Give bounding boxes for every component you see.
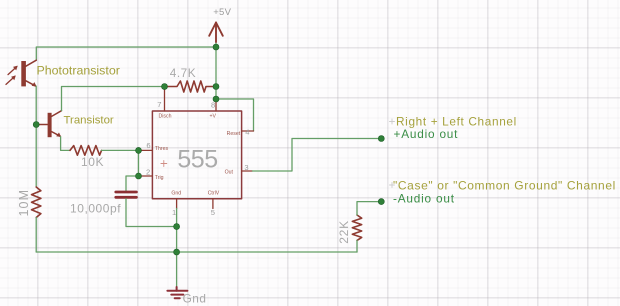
wire transistor emitter down to 10K	[61, 137, 70, 151]
transistor Q base bar	[48, 113, 52, 137]
svg-text:10M: 10M	[17, 189, 31, 217]
capacitor C 10,000pf plates	[116, 192, 137, 197]
svg-text:Gnd: Gnd	[171, 191, 181, 197]
svg-text:Transistor: Transistor	[64, 115, 114, 127]
junction cap-gnd	[174, 224, 180, 230]
pin 6 stub	[139, 149, 153, 151]
origin cross case channel label	[390, 183, 395, 188]
svg-text:+Audio out: +Audio out	[394, 127, 459, 141]
ground symbol	[167, 287, 187, 298]
wire transistor collector up and right to R 4.7K node	[62, 87, 165, 111]
op IC U1 555 body	[152, 111, 241, 199]
wire 10M to bottom rail	[35, 218, 37, 253]
junction bottom rail gnd	[174, 249, 180, 255]
wire thres-trig link	[138, 150, 140, 176]
svg-text:6: 6	[146, 141, 150, 150]
svg-text:Thres: Thres	[155, 146, 169, 152]
junction trig	[136, 173, 142, 179]
svg-text:4: 4	[245, 127, 249, 136]
node -audio endpoint	[378, 199, 384, 205]
wire out net to +audio	[253, 139, 382, 172]
svg-text:3: 3	[244, 163, 248, 172]
photo light arrow 1	[8, 67, 17, 75]
pin 5 stub	[212, 199, 214, 209]
svg-text:Out: Out	[225, 170, 234, 176]
pin 4 stub	[242, 130, 254, 132]
origin cross right channel label	[390, 119, 395, 124]
svg-text:Trig: Trig	[155, 175, 164, 181]
wire 10K to thres node	[102, 149, 139, 151]
junction +5V top	[213, 44, 219, 50]
svg-text:Phototransistor: Phototransistor	[37, 64, 120, 78]
node +audio endpoint	[378, 136, 384, 142]
pin 8 stub	[215, 99, 217, 111]
transistor collector lead	[52, 111, 62, 117]
wire 22K top to -audio	[357, 202, 381, 215]
phototransistor collector lead	[26, 60, 36, 66]
svg-text:10K: 10K	[81, 155, 104, 169]
svg-text:-Audio out: -Audio out	[393, 191, 455, 205]
wire cap bottom to gnd node	[126, 199, 177, 227]
pin 7 stub	[164, 87, 166, 112]
wire bottom rail	[36, 251, 357, 253]
supply +5V symbol	[209, 23, 223, 43]
pin 3 stub	[242, 170, 253, 172]
phototransistor Q? base bar	[21, 61, 26, 86]
IC origin cross	[161, 161, 167, 167]
svg-text:4.7K: 4.7K	[170, 66, 196, 80]
svg-text:1: 1	[172, 208, 176, 217]
svg-text:7: 7	[157, 100, 161, 109]
junction 4.7K left pin7	[162, 84, 168, 90]
wire node down to 10M	[35, 125, 37, 188]
wire pin1 down to node	[176, 209, 178, 227]
transistor base pin	[38, 124, 48, 126]
resistor 10K zigzag	[70, 146, 102, 156]
phototransistor emitter lead with arrow	[26, 81, 36, 86]
resistor 10M zigzag vertical	[32, 187, 41, 218]
resistor 22K zigzag vertical	[352, 215, 361, 240]
photo light arrow 2	[6, 76, 15, 84]
wire reset runaround	[216, 99, 254, 131]
svg-text:+5V: +5V	[213, 7, 231, 18]
svg-text:5: 5	[211, 208, 215, 217]
svg-text:CtrlV: CtrlV	[208, 191, 220, 197]
svg-text:22K: 22K	[337, 220, 351, 244]
svg-text:10,000pf: 10,000pf	[70, 202, 121, 216]
transistor emitter lead with arrow	[52, 132, 61, 137]
junction transistor base	[33, 122, 39, 128]
resistor 4.7K zigzag	[165, 81, 217, 92]
pin 1 stub	[176, 199, 178, 209]
junction 4.7K right	[213, 84, 219, 90]
junction thres	[136, 147, 142, 153]
svg-text:555: 555	[177, 146, 217, 174]
wire trig to cap	[126, 176, 139, 191]
svg-text:+V: +V	[210, 113, 217, 119]
pin 2 stub	[139, 175, 153, 177]
wire node to bottom rail	[176, 227, 178, 253]
wire top rail from phototransistor to +5V column	[36, 47, 216, 60]
svg-text:Gnd: Gnd	[183, 291, 207, 305]
wire gnd drop	[176, 252, 178, 287]
wire +5V column 47..99	[215, 47, 217, 99]
wire phototransistor emitter down to base node	[35, 86, 37, 124]
svg-text:Disch: Disch	[159, 113, 172, 119]
svg-text:2: 2	[146, 168, 150, 177]
wire +5V stem lower	[215, 42, 217, 47]
svg-text:Reset: Reset	[227, 131, 241, 137]
junction pin8 reset	[213, 96, 219, 102]
wire 22K bottom to rail	[356, 240, 358, 252]
